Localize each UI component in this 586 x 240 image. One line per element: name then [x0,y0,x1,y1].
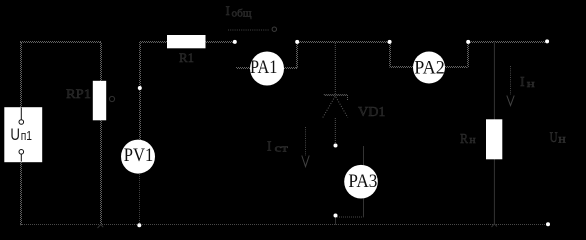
node A junction dot [233,40,237,44]
node bottom-right junction dot [546,222,550,226]
svg-text:R: R [460,132,469,147]
wire Rn branch lower [493,159,495,225]
current arrow I_st [267,127,309,167]
resistor R1 [167,35,206,48]
voltage label U_n [550,130,566,146]
wire PA1 left stub [236,68,251,69]
wire PA1 right jog [297,43,298,68]
source Un1 [4,107,42,162]
svg-text:н: н [527,78,535,90]
wire PA3 top stub [363,146,365,166]
wire top rail left [20,42,101,43]
RP1 wiper arrowhead [109,96,114,101]
node VD-PA3 lower junction dot [334,214,338,218]
anode triangle [323,96,348,118]
svg-text:U: U [10,125,20,144]
resistor Rn [486,119,502,159]
svg-text:I: I [226,3,230,18]
wire bottom rail [20,224,548,226]
wire left branch lower [21,161,22,225]
svg-text:R1: R1 [179,51,194,65]
wire PA2 right stub [445,67,467,68]
node D junction dot [466,40,470,44]
wire PA3 bottom jog [337,216,364,218]
Rn bottom junction mark [492,224,498,227]
voltmeter PV1 [121,140,155,174]
wire RP1 branch upper [101,42,102,81]
wire left branch upper [21,42,22,108]
wire top rail to R1 [140,42,167,43]
wire PV1 branch lower [139,174,141,225]
svg-text:I: I [267,139,272,154]
svg-text:ст: ст [275,144,289,155]
svg-text:I: I [520,75,525,90]
svg-text:PA2: PA2 [414,57,445,78]
wire node B to node C [298,42,388,43]
wire node E to bottom rail [335,217,337,225]
cathode bar [324,95,348,101]
wire Rn branch upper [493,42,495,121]
wire PA1 right stub [283,68,298,69]
wire VD branch upper [334,43,336,95]
wire PA2 left jog [390,43,391,68]
svg-text:VD1: VD1 [358,105,386,120]
svg-text:PA1: PA1 [250,57,278,78]
current arrow I_obshch [226,3,277,31]
svg-text:PV1: PV1 [124,145,154,166]
resistor RP1 [93,81,106,121]
node VD-PA3 upper junction dot [334,144,338,148]
wire R1 to node A [205,42,233,43]
svg-text:RP1: RP1 [66,86,91,101]
node B junction dot [295,40,299,44]
ammeter PA3 [344,165,378,199]
RP1 bottom junction mark [98,225,104,229]
wire VD branch lower [334,118,336,144]
wire PV1 branch upper [140,42,141,140]
wire PA2 right jog [468,43,469,68]
node top-right junction dot [545,39,549,43]
node PV1-RP1 junction dot [138,86,142,90]
svg-text:п1: п1 [21,128,32,143]
svg-text:U: U [550,130,558,146]
svg-text:н: н [469,134,476,146]
ammeter PA1 [250,52,284,86]
svg-text:общ: общ [232,9,252,20]
wire PA2 left stub [390,67,414,68]
svg-text:н: н [558,133,566,145]
ammeter PA2 [413,52,445,84]
svg-text:PA3: PA3 [348,171,377,192]
current arrow I_n [507,66,535,106]
wire node D to top-right corner [469,42,547,43]
wire PA3 bottom stub [363,199,365,217]
node PV1-bottom junction dot [137,223,141,227]
wire RP1 branch lower [101,120,102,225]
node C junction dot [388,40,392,44]
zener diode VD1 [323,95,386,121]
